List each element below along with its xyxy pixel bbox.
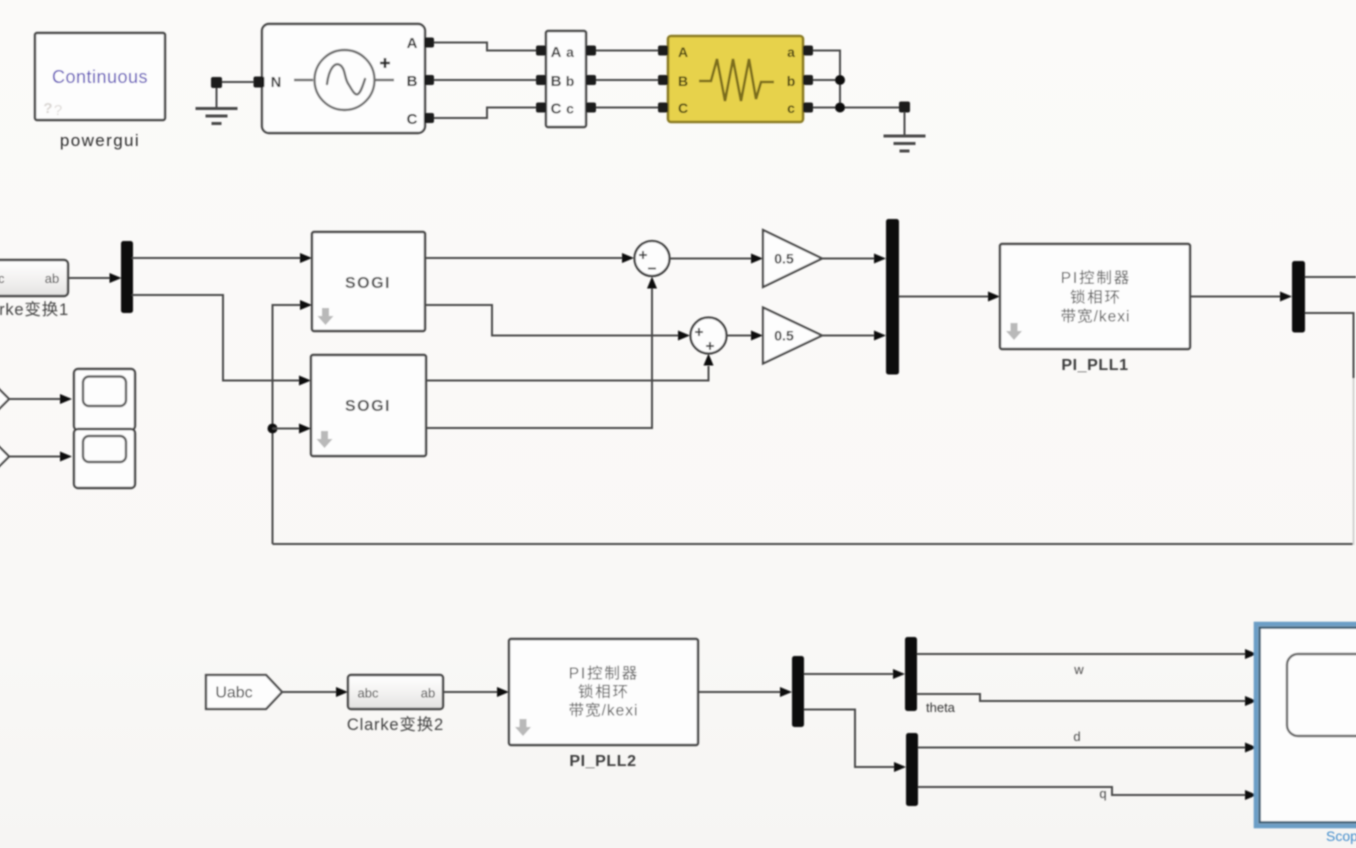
PI_PLL1 block xyxy=(1000,244,1190,349)
demux D3 xyxy=(792,656,804,727)
w label xyxy=(1073,662,1084,677)
svg-text:c: c xyxy=(787,100,795,116)
meter port B in xyxy=(536,75,546,85)
svg-text:powergui: powergui xyxy=(60,131,140,150)
svg-text:theta: theta xyxy=(926,700,956,715)
load port A xyxy=(658,46,668,56)
SOGI2 dropdown icon xyxy=(317,431,333,448)
wire load b xyxy=(813,79,840,81)
svg-text:N: N xyxy=(271,75,281,91)
load port c xyxy=(803,103,813,113)
From tag diamond 1 xyxy=(0,383,9,415)
scope block xyxy=(1256,624,1356,826)
source port N xyxy=(254,77,265,88)
wire meter a to load A xyxy=(596,50,658,52)
demux D5 xyxy=(906,733,918,806)
demux D4 xyxy=(905,637,917,711)
svg-text:q: q xyxy=(1099,786,1106,801)
meter port a out xyxy=(586,46,596,56)
wire D5 out2 q to scope xyxy=(918,787,1257,800)
wire meter c to load C xyxy=(596,107,658,109)
svg-text:PI: PI xyxy=(569,666,587,683)
svg-text:A: A xyxy=(678,44,688,60)
Clarke transform 1 label xyxy=(0,301,69,319)
gain block 0.5 #1 xyxy=(763,230,822,287)
svg-text:c: c xyxy=(566,101,574,117)
wire D5 out1 d to scope xyxy=(918,743,1257,753)
load port C xyxy=(658,103,668,113)
svg-text:A: A xyxy=(551,44,562,61)
meter port c out xyxy=(586,103,596,113)
load port B xyxy=(658,75,668,85)
meter port C in xyxy=(536,103,546,113)
svg-text:B: B xyxy=(407,73,418,90)
svg-text:B: B xyxy=(551,73,562,90)
svg-text:?: ? xyxy=(43,100,52,117)
source port B xyxy=(424,75,434,85)
ground G1 terminal xyxy=(211,77,222,88)
Clarke transform 2 block xyxy=(348,675,443,709)
display block 2 xyxy=(74,429,135,488)
svg-text:?: ? xyxy=(54,102,62,119)
svg-text:C: C xyxy=(678,100,688,116)
Clarke transform 1 block xyxy=(0,260,68,296)
wire tag2 to display2 xyxy=(9,452,72,462)
svg-text:PI_PLL2: PI_PLL2 xyxy=(569,753,636,770)
Uabc From tag xyxy=(206,675,282,709)
svg-text:ab: ab xyxy=(421,686,435,701)
svg-text:Uabc: Uabc xyxy=(215,685,252,702)
wire Clarke2 to PI_PLL2 xyxy=(443,687,509,697)
wire Uabc to Clarke2 xyxy=(282,687,348,697)
svg-text:ab: ab xyxy=(45,271,59,286)
svg-text:abc: abc xyxy=(358,686,379,701)
svg-text:b: b xyxy=(566,73,575,89)
svg-text:Scop: Scop xyxy=(1326,828,1356,844)
powergui block xyxy=(35,33,165,120)
powergui label xyxy=(60,131,140,150)
sum block S1 xyxy=(635,241,670,276)
meter port A in xyxy=(536,46,546,56)
ground G2 xyxy=(884,112,926,151)
svg-text:PI: PI xyxy=(1061,270,1079,287)
wire D4 out1 w to scope xyxy=(917,649,1257,659)
svg-text:0.5: 0.5 xyxy=(774,328,794,344)
wire D2 out2 feedback loop xyxy=(273,313,1354,545)
mux M1 xyxy=(886,219,899,375)
d label xyxy=(1073,729,1080,744)
wire gain1 to mux M1 xyxy=(822,254,886,264)
sum block S2 xyxy=(691,318,727,354)
wire D2 out1 right xyxy=(1305,276,1356,278)
wire mux M1 to PI_PLL1 xyxy=(899,292,1000,302)
SOGI2 block xyxy=(311,355,426,456)
svg-text:b: b xyxy=(787,73,796,89)
wire PI_PLL1 to demux D2 xyxy=(1190,292,1292,302)
wire SOGI2 out1 to S2 plus xyxy=(426,354,714,381)
wire ground G1 to N xyxy=(222,81,254,83)
wire SOGI1 out2 to sum S2 xyxy=(425,305,690,341)
source port C xyxy=(424,113,434,123)
wire phase B source to meter xyxy=(434,79,537,81)
svg-text:a: a xyxy=(566,44,574,60)
PI_PLL1 label xyxy=(1061,357,1128,374)
svg-text:Clarke: Clarke xyxy=(347,716,399,734)
junction dot c xyxy=(835,103,845,113)
PI_PLL2 label xyxy=(569,753,636,770)
wire S1 to gain1 xyxy=(670,254,764,264)
three-phase source block V1 xyxy=(262,24,425,133)
load port b xyxy=(803,75,813,85)
svg-text:w: w xyxy=(1073,662,1084,677)
svg-text:Clarke: Clarke xyxy=(0,301,24,319)
svg-text:C: C xyxy=(407,111,418,128)
svg-text:a: a xyxy=(787,44,795,60)
wire PI_PLL2 to demux D3 xyxy=(698,687,792,697)
wire tag1 to display1 xyxy=(9,394,72,404)
svg-text:SOGI: SOGI xyxy=(345,275,391,292)
svg-text:PI_PLL1: PI_PLL1 xyxy=(1061,357,1128,374)
wire S2 to gain2 xyxy=(727,331,764,341)
wire phase C source to meter xyxy=(434,108,537,119)
Clarke transform 2 label xyxy=(347,716,444,734)
wire meter b to load B xyxy=(596,79,658,81)
wire D1 out2 to SOGI2 in1 xyxy=(132,295,311,386)
three-phase V-I measurement block xyxy=(546,31,586,127)
demux D1 xyxy=(121,241,133,313)
PI_PLL2 block xyxy=(509,639,698,745)
svg-text:2: 2 xyxy=(434,716,444,734)
feedback wire vertical left xyxy=(273,300,313,544)
source port A xyxy=(424,38,434,48)
ground G2 terminal xyxy=(899,102,910,113)
scope label xyxy=(1326,828,1356,844)
svg-text:0.5: 0.5 xyxy=(774,251,794,267)
svg-text:B: B xyxy=(678,73,688,89)
wire SOGI2 out2 to S1 minus xyxy=(426,277,657,429)
wire load c to ground xyxy=(813,107,899,109)
svg-text:d: d xyxy=(1073,729,1080,744)
q label xyxy=(1099,786,1106,801)
three-phase load block (series RLC) xyxy=(668,36,803,122)
wire SOGI1 out1 to sum S1 xyxy=(425,253,634,263)
wire D3 out1 to demux D4 xyxy=(804,669,905,679)
load resistor icon xyxy=(699,59,774,101)
svg-text:/kexi: /kexi xyxy=(602,703,639,720)
demux D2 xyxy=(1292,261,1305,333)
SOGI1 block xyxy=(312,232,425,331)
PI_PLL2 dropdown icon xyxy=(515,719,531,736)
svg-text:/kexi: /kexi xyxy=(1094,309,1131,326)
svg-text:SOGI: SOGI xyxy=(345,398,391,415)
junction dot feedback xyxy=(268,424,278,434)
PI_PLL1 dropdown icon xyxy=(1006,323,1022,340)
wire Clarke1 to demux D1 xyxy=(68,273,122,283)
wire load a down xyxy=(813,51,840,108)
svg-text:abc: abc xyxy=(0,271,5,286)
svg-text:1: 1 xyxy=(59,301,69,319)
display block 1 xyxy=(74,369,135,430)
theta label xyxy=(926,700,956,715)
svg-text:Continuous: Continuous xyxy=(52,67,148,87)
ground G1 xyxy=(196,88,238,124)
wire gain2 to mux M1 xyxy=(822,331,886,341)
load port a xyxy=(803,46,813,56)
meter port b out xyxy=(586,75,596,85)
wire feedback to SOGI2 in2 xyxy=(273,424,312,434)
wire D1 out1 to SOGI1 in1 xyxy=(132,253,312,263)
From tag diamond 2 xyxy=(0,441,9,473)
wire phase A source to meter xyxy=(434,43,537,51)
svg-text:C: C xyxy=(551,101,562,118)
wire D4 out2 theta to scope xyxy=(917,694,1257,706)
SOGI1 dropdown icon xyxy=(318,308,334,325)
svg-text:A: A xyxy=(407,35,418,52)
wire D3 out2 to demux D5 xyxy=(804,710,906,773)
gain block 0.5 #2 xyxy=(763,308,822,364)
junction dot b xyxy=(835,75,845,85)
